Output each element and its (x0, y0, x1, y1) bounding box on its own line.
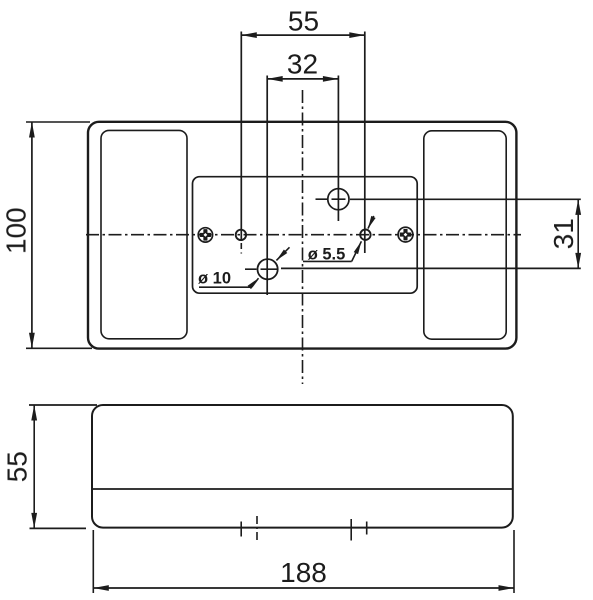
tick mark 1 (240, 522, 242, 537)
svg-text:100: 100 (1, 207, 32, 254)
extension line 32 left through hole D (266, 76, 268, 296)
mounting plate (193, 177, 418, 294)
dimension 55 side (29, 405, 97, 528)
centermark hole D (245, 268, 278, 270)
dimension 100 (26, 122, 92, 348)
side view parting line (92, 488, 513, 490)
extension line 55 right through hole E (364, 32, 366, 254)
dimension 188 (93, 530, 514, 593)
leader label diameter 5.5 (303, 216, 376, 262)
screw right (398, 227, 413, 242)
centermark hole C (316, 198, 347, 200)
hole B (small left) (236, 230, 246, 240)
dimension 55 top (241, 32, 364, 38)
hole D diameter 10 (258, 259, 278, 279)
lamp body outline (top view) (88, 122, 516, 349)
svg-text:ø 5.5: ø 5.5 (308, 246, 346, 264)
extension line 55 left (240, 32, 242, 241)
tick mark 2 (256, 516, 258, 542)
vertical centerline (302, 90, 304, 384)
screw left (198, 228, 212, 242)
right reflector window (424, 131, 506, 339)
svg-text:188: 188 (280, 557, 327, 588)
dimension 32 (267, 76, 338, 82)
svg-text:55: 55 (2, 451, 33, 482)
hole C (top) (328, 189, 349, 210)
horizontal centerline (86, 234, 521, 236)
left reflector window (101, 130, 187, 338)
svg-text:32: 32 (287, 49, 318, 80)
dimension 31 (575, 199, 581, 268)
extension line 32 right through hole C (337, 76, 339, 222)
tick mark 3 (350, 519, 352, 541)
leader label diameter 10 (199, 247, 290, 289)
lamp body outline (side view) (92, 405, 513, 528)
svg-text:31: 31 (548, 218, 579, 249)
hole E diameter 5.5 (360, 230, 370, 240)
extension lines 31 (350, 198, 581, 200)
svg-text:ø 10: ø 10 (198, 270, 231, 288)
svg-text:55: 55 (288, 6, 319, 37)
tick mark 4 (366, 522, 368, 535)
